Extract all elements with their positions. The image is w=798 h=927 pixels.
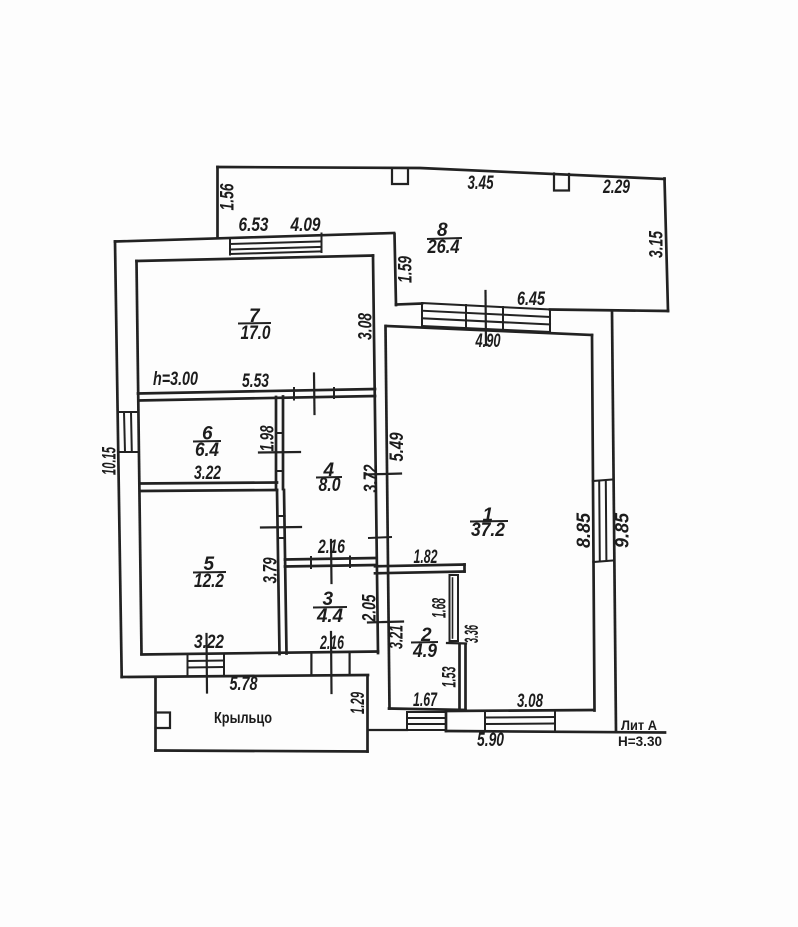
svg-text:Крыльцо: Крыльцо bbox=[214, 710, 272, 727]
wall: main divider right line / room 1-2 left wall bbox=[386, 326, 390, 709]
svg-text:1.98: 1.98 bbox=[258, 425, 279, 451]
svg-text:5.53: 5.53 bbox=[242, 371, 269, 392]
svg-text:2.16: 2.16 bbox=[317, 537, 345, 558]
tick: dimension 2.16 long (room3 bottom) bbox=[330, 632, 333, 693]
svg-text:17.0: 17.0 bbox=[241, 323, 271, 344]
svg-text:37.2: 37.2 bbox=[471, 520, 505, 541]
svg-text:3.36: 3.36 bbox=[462, 625, 483, 643]
wall: room 2 top right cap bbox=[463, 565, 466, 572]
svg-text:3.21: 3.21 bbox=[387, 625, 408, 649]
svg-text:1.29: 1.29 bbox=[348, 692, 369, 714]
window: room 5 bottom (3.22) bbox=[188, 655, 225, 677]
wall: main divider left line (rooms 7/4/3 vs room 1) bbox=[373, 256, 378, 654]
wall: room 3 top upper line bbox=[285, 558, 375, 560]
porch: left edge bbox=[154, 677, 157, 751]
porch: right edge bbox=[366, 677, 369, 752]
svg-text:6.4: 6.4 bbox=[195, 440, 219, 461]
wall: room 1 bottom outer + lit A underline bbox=[446, 731, 665, 733]
svg-text:2.29: 2.29 bbox=[602, 177, 630, 198]
tick: jamb room3 top right bbox=[349, 557, 351, 568]
svg-text:5.78: 5.78 bbox=[230, 674, 258, 695]
svg-text:3.22: 3.22 bbox=[194, 632, 224, 653]
wall: room 2 top lower line bbox=[375, 572, 465, 574]
tick: jamb room3 top left bbox=[310, 557, 312, 568]
wall: room 8 left upper (1.56) bbox=[216, 167, 219, 238]
wire: porch to steps ground line bbox=[369, 729, 407, 731]
svg-text:4.9: 4.9 bbox=[412, 641, 437, 662]
svg-text:8.85: 8.85 bbox=[574, 513, 595, 548]
svg-text:4.90: 4.90 bbox=[475, 331, 501, 352]
svg-text:h=3.00: h=3.00 bbox=[153, 369, 198, 390]
wall: room 8 right bbox=[665, 179, 669, 312]
tick: rung upper in 6/4 wall bbox=[276, 432, 283, 434]
window: room 8 bottom (6.45/4.90) bbox=[422, 303, 550, 332]
svg-text:1.59: 1.59 bbox=[396, 256, 417, 283]
wall: room 7 top inner bbox=[137, 256, 374, 262]
wall: rooms 6/4 divider left line bbox=[275, 397, 278, 489]
wall: left inner bbox=[137, 261, 142, 654]
wall: room 7 bottom upper line bbox=[138, 389, 375, 394]
svg-text:1.68: 1.68 bbox=[430, 598, 451, 618]
wall: room 1 top bbox=[386, 326, 592, 335]
wall: rooms 6/4 divider right line bbox=[282, 397, 285, 490]
svg-text:Н=3.30: Н=3.30 bbox=[618, 733, 662, 749]
porch: bottom edge bbox=[156, 751, 368, 752]
svg-text:2.16: 2.16 bbox=[319, 633, 344, 654]
svg-text:1.56: 1.56 bbox=[218, 183, 239, 210]
svg-text:3.79: 3.79 bbox=[261, 557, 282, 583]
svg-text:3.22: 3.22 bbox=[194, 463, 221, 484]
wall: rooms 5/4-3 divider right line bbox=[284, 490, 287, 654]
svg-text:3.08: 3.08 bbox=[356, 313, 377, 340]
wall: room 8 top bbox=[218, 167, 665, 179]
porch: notch on left side bbox=[156, 713, 171, 729]
notch: chimney 2 on room 8 top wall bbox=[554, 174, 569, 191]
tick: door bottom jamb room 2 bbox=[447, 642, 466, 645]
svg-text:26.4: 26.4 bbox=[427, 237, 460, 258]
tick: dimension 5.53/2.16 long bbox=[313, 374, 316, 415]
wall: main house top outer bbox=[115, 233, 394, 242]
wall: rooms 6/5 divider upper bbox=[140, 483, 277, 484]
svg-text:3.15: 3.15 bbox=[647, 231, 668, 258]
window: room 1 bottom (3.08) bbox=[485, 711, 555, 732]
tick: dimension 2.16 long (room3 top) bbox=[330, 540, 333, 583]
wall: bottom inner (rooms 5 and 3) bbox=[142, 652, 379, 655]
tick: crossing at divider y622 bbox=[368, 622, 403, 623]
svg-text:5.49: 5.49 bbox=[387, 432, 408, 461]
tick: rung upper in 5/4 wall bbox=[278, 515, 285, 517]
window: room 1 right (8.85/9.85) bbox=[593, 480, 614, 563]
svg-text:10.15: 10.15 bbox=[100, 447, 121, 475]
svg-text:2.05: 2.05 bbox=[360, 594, 381, 622]
wall: room 2 right lower right line bbox=[464, 644, 467, 710]
svg-text:3.45: 3.45 bbox=[468, 173, 494, 194]
window: left wall (10.15) bbox=[118, 412, 139, 452]
wall: bottom outer (house) bbox=[122, 675, 368, 677]
wall: room 1 right inner bbox=[592, 335, 595, 711]
wall: room 2 bottom bbox=[389, 709, 466, 711]
door: leaf inner line bbox=[452, 578, 454, 638]
svg-text:6.45: 6.45 bbox=[517, 289, 545, 310]
wall: room 8 bottom left segment bbox=[396, 304, 422, 305]
notch: chimney 1 on room 8 top wall bbox=[392, 169, 408, 185]
svg-text:3.08: 3.08 bbox=[517, 691, 543, 712]
svg-text:1.67: 1.67 bbox=[413, 690, 438, 711]
svg-text:Лит А: Лит А bbox=[621, 717, 657, 733]
window: top wall (6.53) bbox=[230, 234, 322, 255]
svg-text:1.53: 1.53 bbox=[440, 666, 461, 687]
svg-text:12.2: 12.2 bbox=[194, 571, 224, 592]
step: stoop below room 3 bbox=[311, 653, 349, 675]
wall: room 2 top upper line bbox=[375, 565, 465, 567]
svg-text:4.4: 4.4 bbox=[316, 606, 343, 627]
wall: rooms 6/5 divider lower bbox=[141, 490, 278, 491]
svg-text:3.72: 3.72 bbox=[361, 464, 382, 492]
tick: rung lower in 6/4 wall bbox=[276, 470, 283, 472]
tick: dimension 3.22 long (bottom) bbox=[205, 634, 208, 693]
tick: dimension 3.72/5.49 crossing bbox=[366, 474, 401, 475]
wall: room 1 bottom left cap bbox=[445, 711, 448, 731]
wall: left outer bbox=[115, 242, 122, 678]
svg-text:6.53: 6.53 bbox=[239, 215, 269, 236]
wall: room 7 bottom lower line bbox=[139, 396, 376, 401]
wall: room 1 right outer bbox=[612, 312, 616, 732]
tick: dimension 3.79 long bbox=[261, 526, 301, 529]
svg-text:4.09: 4.09 bbox=[290, 215, 321, 236]
svg-text:1.82: 1.82 bbox=[414, 547, 438, 568]
svg-text:9.85: 9.85 bbox=[613, 513, 634, 548]
steps: entrance below room 2 bbox=[407, 712, 446, 730]
wall: room 2 right lower left line bbox=[458, 644, 461, 709]
wall: room 1 bottom inner bbox=[446, 710, 594, 711]
wall: room 8 bottom right segment bbox=[550, 310, 668, 312]
wall: room 8 left lower (1.59) bbox=[395, 234, 397, 305]
tick: jamb on room7 bottom wall right bbox=[333, 388, 335, 398]
tick: dimension 1.98 long bbox=[259, 451, 300, 454]
svg-text:8.0: 8.0 bbox=[319, 475, 341, 496]
wall: room 3 top lower line bbox=[285, 565, 375, 567]
tick: crossing at divider y538 bbox=[369, 537, 391, 538]
wall: rooms 5/4-3 divider left line bbox=[277, 490, 280, 654]
door: leaf in room 2 right wall (1.68) bbox=[450, 575, 459, 641]
tick: rung lower in 5/4 wall bbox=[278, 537, 285, 539]
svg-text:5.90: 5.90 bbox=[477, 730, 504, 751]
tick: dimension 4.90 bbox=[484, 291, 487, 345]
tick: jamb on room7 bottom wall left bbox=[293, 388, 295, 400]
